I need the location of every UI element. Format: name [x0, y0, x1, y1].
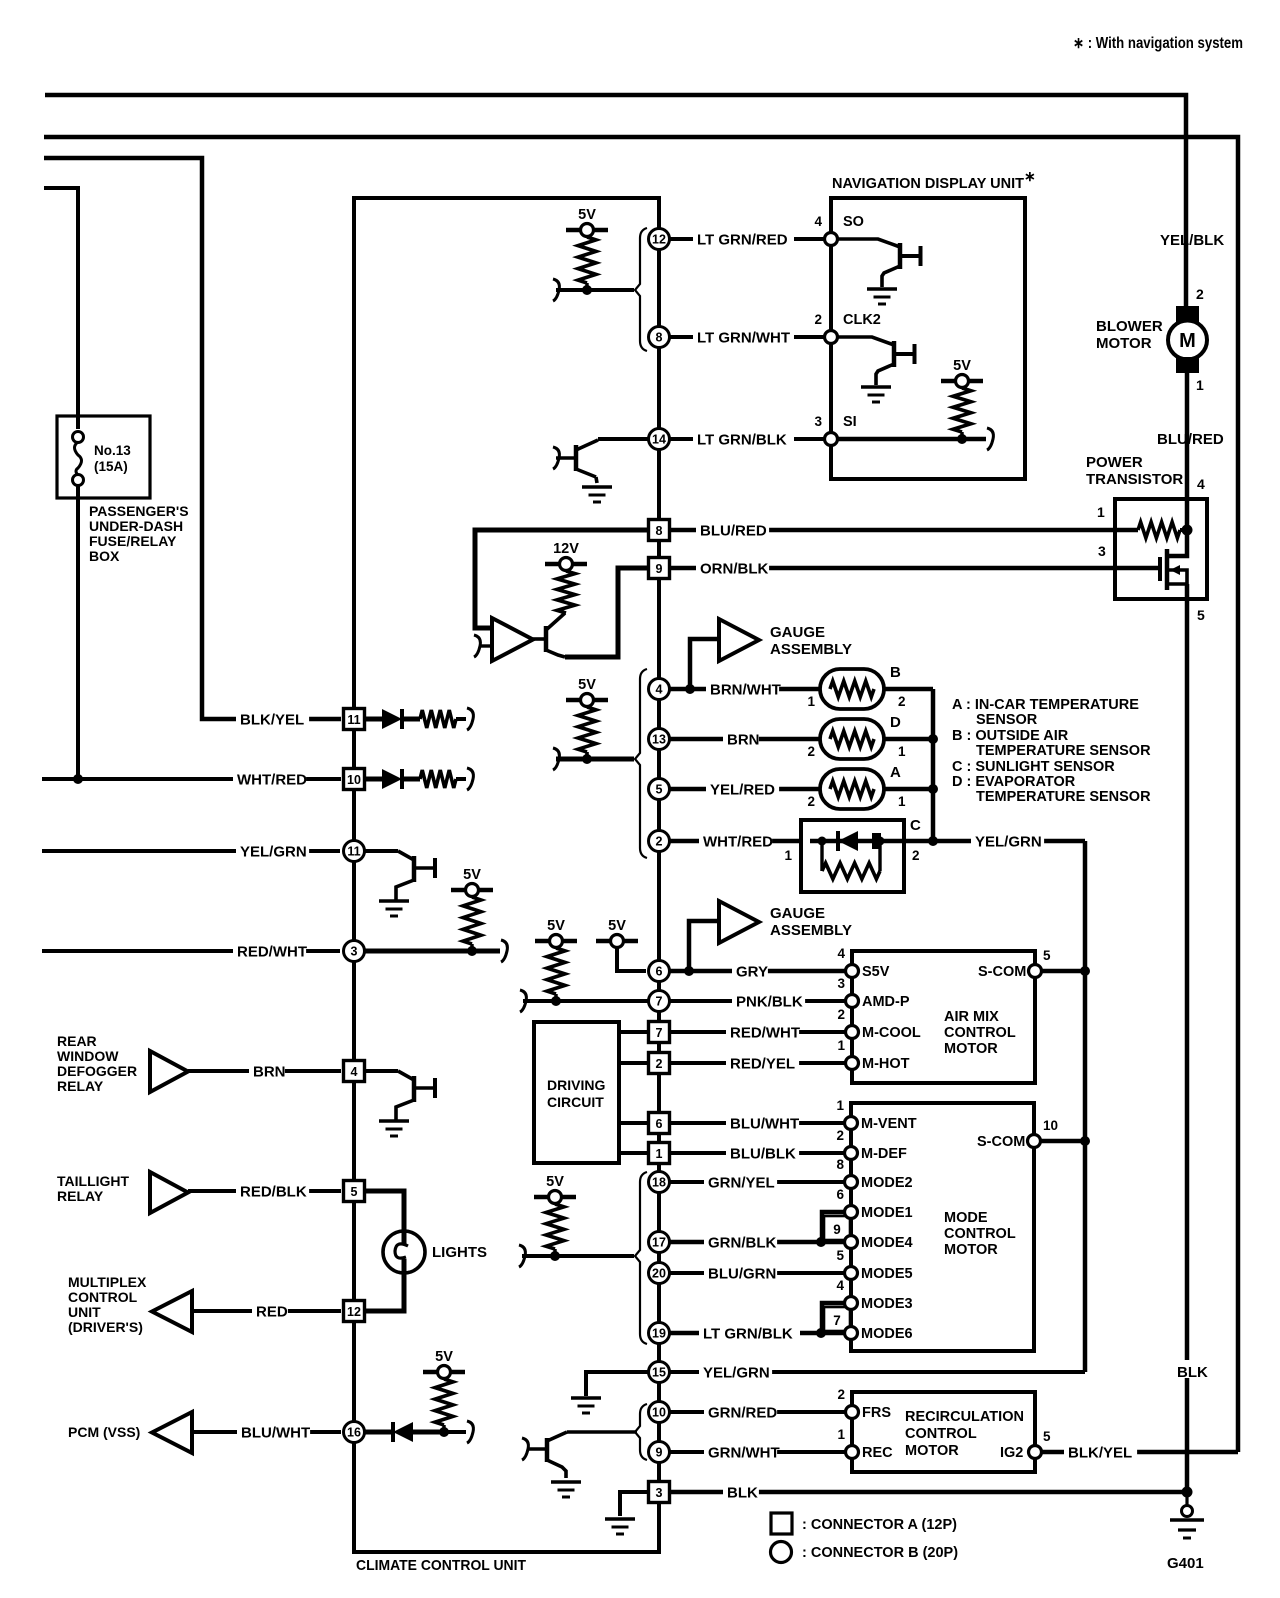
svg-text:C: C	[910, 817, 921, 834]
connector A pin 9 square small	[824, 1216, 850, 1240]
power transistor box	[1115, 499, 1207, 599]
svg-text:7: 7	[656, 995, 663, 1009]
svg-text:S-COM: S-COM	[978, 964, 1026, 980]
svg-text:10: 10	[1043, 1118, 1058, 1133]
wire RED/WHT to M-COOL	[670, 1030, 845, 1034]
svg-text:6: 6	[656, 1117, 663, 1131]
svg-text:SENSOR: SENSOR	[976, 712, 1038, 728]
connector B pin 6 right column	[649, 961, 670, 982]
wire RED	[192, 1309, 341, 1313]
svg-text:D: D	[890, 714, 901, 731]
sensor C sunlight sensor box	[801, 820, 904, 892]
relay REAR WINDOW DEFOGGER RELAY	[150, 1051, 188, 1092]
wire LT GRN/WHT to nav CLK2	[670, 335, 824, 339]
svg-text:5V: 5V	[608, 918, 626, 934]
svg-text:B: B	[890, 664, 901, 681]
svg-text:5: 5	[1197, 607, 1205, 623]
sensor C photodiode	[810, 839, 900, 844]
mode pin MODE5	[845, 1267, 858, 1280]
sensor A in-car temperature	[820, 769, 884, 809]
svg-text:DEFOGGER: DEFOGGER	[57, 1063, 137, 1079]
svg-text:LT GRN/RED: LT GRN/RED	[697, 231, 788, 248]
svg-text:4: 4	[836, 1278, 844, 1293]
svg-text:LT GRN/BLK: LT GRN/BLK	[697, 431, 787, 448]
svg-text:PCM (VSS): PCM (VSS)	[68, 1424, 140, 1440]
connector B pin 4 right column	[649, 679, 670, 700]
connector B pin 15 right column	[649, 1362, 670, 1383]
svg-text:CLK2: CLK2	[843, 312, 881, 328]
svg-text:(15A): (15A)	[94, 459, 128, 474]
svg-text:4: 4	[837, 946, 845, 961]
wire RED/BLK	[188, 1189, 341, 1193]
sensor bus vertical	[931, 689, 936, 841]
svg-text:14: 14	[652, 433, 666, 447]
wire driver emitter to pin 9	[565, 568, 648, 657]
svg-text:7: 7	[656, 1026, 663, 1040]
connector A pin 5 square	[344, 1181, 365, 1202]
svg-text:REC: REC	[862, 1445, 893, 1461]
power transistor resistor	[1138, 522, 1180, 538]
connector B pin 18 right column	[649, 1172, 670, 1193]
svg-text:BRN: BRN	[727, 731, 760, 748]
svg-text:REAR: REAR	[57, 1033, 97, 1049]
wire top bus 1 to blower motor	[45, 95, 1186, 306]
transistor at pin 11 YEL/GRN with ground	[365, 849, 398, 853]
wire LT GRN/BLK to nav SI	[670, 437, 824, 441]
svg-text:13: 13	[652, 733, 666, 747]
mode pin MODE2	[845, 1176, 858, 1189]
svg-text:9: 9	[656, 1446, 663, 1460]
svg-text:5V: 5V	[578, 207, 596, 223]
connector A pin 1 right column	[649, 1143, 670, 1164]
wire YEL/GRN vertical rail	[1083, 841, 1088, 1372]
svg-text:(DRIVER'S): (DRIVER'S)	[68, 1319, 143, 1335]
connector A pin 3 right column	[649, 1482, 670, 1503]
svg-text:LIGHTS: LIGHTS	[432, 1244, 487, 1261]
svg-text:5V: 5V	[463, 867, 481, 883]
buffer amp triangle	[492, 618, 533, 661]
svg-text:G401: G401	[1167, 1555, 1204, 1572]
svg-text:MOTOR: MOTOR	[944, 1041, 998, 1057]
connector B pin 9 right column	[649, 1442, 670, 1463]
connector B pin 20 right column	[649, 1263, 670, 1284]
wire WHT/RED feed	[42, 777, 341, 781]
svg-text:2: 2	[807, 794, 815, 809]
svg-text:WINDOW: WINDOW	[57, 1048, 119, 1064]
svg-text:CONTROL: CONTROL	[944, 1025, 1016, 1041]
svg-text:19: 19	[652, 1327, 666, 1341]
wire drain	[1167, 499, 1187, 556]
connector B pin 3 circle	[344, 941, 365, 962]
transistor at pin 14 with ground	[553, 447, 559, 469]
svg-text:4: 4	[656, 683, 663, 697]
connector B pin 10 right column	[649, 1402, 670, 1423]
svg-text:RECIRCULATION: RECIRCULATION	[905, 1409, 1024, 1425]
wire LT GRN/BLK to MODE6 and MODE3	[670, 1331, 845, 1336]
connector B pin 16 circle	[344, 1422, 365, 1443]
svg-text:ASSEMBLY: ASSEMBLY	[770, 641, 852, 658]
svg-text:6: 6	[656, 965, 663, 979]
svg-text:5: 5	[1043, 1429, 1051, 1444]
connector A pin 6 right column	[649, 1113, 670, 1134]
svg-text:: CONNECTOR B (20P): : CONNECTOR B (20P)	[802, 1545, 958, 1561]
svg-text:2: 2	[837, 1387, 845, 1402]
svg-text:GRY: GRY	[736, 963, 768, 980]
svg-text:2: 2	[837, 1007, 845, 1022]
svg-text:S-COM: S-COM	[977, 1134, 1025, 1150]
svg-text:2: 2	[1196, 286, 1204, 302]
wire pin 12 stub	[365, 1309, 404, 1314]
svg-text:WHT/RED: WHT/RED	[237, 771, 307, 788]
wire driving circuit to pin 2 square	[619, 1061, 648, 1065]
svg-text:1: 1	[898, 794, 906, 809]
svg-text:GRN/WHT: GRN/WHT	[708, 1444, 780, 1461]
wire ORN/BLK to power transistor gate	[670, 566, 1159, 571]
connector A pin 9 right column	[649, 558, 670, 579]
svg-text:M: M	[1179, 330, 1196, 352]
brace recirculation connector group	[635, 1404, 647, 1460]
svg-text:DRIVING: DRIVING	[547, 1077, 605, 1093]
svg-text:GRN/RED: GRN/RED	[708, 1404, 777, 1421]
arrow PCM (VSS)	[152, 1412, 192, 1453]
jumper to MODE3 via square 7	[822, 1303, 845, 1333]
wire driving circuit to pin 1 square	[619, 1151, 648, 1155]
svg-text:GAUGE: GAUGE	[770, 905, 825, 922]
svg-text:5V: 5V	[546, 1174, 564, 1190]
svg-text:TEMPERATURE SENSOR: TEMPERATURE SENSOR	[976, 789, 1151, 805]
wire YEL/GRN feed	[42, 849, 340, 853]
wire lights to pin 12	[365, 1272, 404, 1311]
svg-text:BLK/YEL: BLK/YEL	[240, 711, 304, 728]
air mix pin S5V	[846, 965, 859, 978]
wire PNK/BLK inside stub	[523, 999, 648, 1003]
svg-text:A: A	[890, 764, 901, 781]
svg-text:8: 8	[836, 1157, 844, 1172]
svg-text:LT GRN/BLK: LT GRN/BLK	[703, 1325, 793, 1342]
svg-text:BRN: BRN	[253, 1063, 286, 1080]
svg-text:CIRCUIT: CIRCUIT	[547, 1094, 604, 1110]
wire BLU/RED to power transistor	[670, 528, 1138, 533]
jumper to MODE1 via square 9	[822, 1212, 845, 1242]
nav pin 4 SO	[825, 233, 838, 246]
gauge assembly 2 arrow	[689, 921, 719, 971]
svg-text:RED/WHT: RED/WHT	[730, 1024, 800, 1041]
air mix pin AMD-P	[846, 995, 859, 1008]
svg-text:: CONNECTOR A (12P): : CONNECTOR A (12P)	[802, 1517, 957, 1533]
svg-text:9: 9	[656, 562, 663, 576]
svg-text:BLK/YEL: BLK/YEL	[1068, 1444, 1132, 1461]
label WHT/RED	[233, 770, 306, 785]
svg-text:5V: 5V	[435, 1349, 453, 1365]
svg-text:SI: SI	[843, 414, 857, 430]
svg-text:MODE5: MODE5	[861, 1266, 913, 1282]
power transistor MOSFET	[1158, 557, 1162, 581]
svg-text:MODE3: MODE3	[861, 1296, 913, 1312]
svg-text:11: 11	[347, 845, 360, 859]
svg-text:CONTROL: CONTROL	[905, 1426, 977, 1442]
navigation display unit box	[831, 198, 1025, 479]
nav pin 2 CLK2	[825, 331, 838, 344]
label BLK/YEL	[236, 710, 309, 725]
svg-text:C : SUNLIGHT SENSOR: C : SUNLIGHT SENSOR	[952, 759, 1115, 775]
air mix control motor box	[852, 951, 1035, 1083]
mode pin MODE3	[845, 1297, 858, 1310]
svg-text:1: 1	[898, 744, 906, 759]
svg-text:CLIMATE CONTROL UNIT: CLIMATE CONTROL UNIT	[356, 1557, 526, 1574]
svg-text:BLOWER: BLOWER	[1096, 318, 1163, 335]
svg-text:2: 2	[836, 1128, 844, 1143]
svg-text:GAUGE: GAUGE	[770, 624, 825, 641]
svg-text:1: 1	[656, 1147, 663, 1161]
svg-text:IG2: IG2	[1000, 1445, 1023, 1461]
wire YEL/GRN from pin 15	[670, 1370, 1085, 1374]
wire lights loop from pin 5	[365, 1191, 404, 1232]
fuse No.13 (15A)	[73, 432, 84, 443]
relay TAILLIGHT RELAY	[150, 1172, 188, 1213]
svg-text:BOX: BOX	[89, 548, 120, 564]
svg-text:ORN/BLK: ORN/BLK	[700, 560, 768, 577]
svg-text:RED/BLK: RED/BLK	[240, 1183, 307, 1200]
air mix S-COM pin 5	[1029, 965, 1042, 978]
svg-text:5V: 5V	[547, 918, 565, 934]
connector A pin 12 square	[344, 1301, 365, 1322]
svg-text:MULTIPLEX: MULTIPLEX	[68, 1274, 147, 1290]
connector B pin 8 right column	[649, 327, 670, 348]
svg-text:4: 4	[351, 1065, 358, 1079]
connector B pin 11 circle	[344, 841, 365, 862]
connector B pin 2 right column	[649, 831, 670, 852]
svg-text:5: 5	[656, 783, 663, 797]
svg-text:∗: ∗	[1024, 168, 1036, 184]
driving circuit box	[534, 1022, 619, 1163]
svg-text:YEL/GRN: YEL/GRN	[240, 843, 307, 860]
wire BRN	[188, 1069, 341, 1073]
svg-text:3: 3	[351, 945, 358, 959]
svg-text:MOTOR: MOTOR	[905, 1443, 959, 1459]
diode and resistor at pin 11	[365, 717, 382, 722]
nav transistor SO	[838, 239, 900, 247]
wire BLU/GRN to MODE5	[670, 1271, 845, 1275]
svg-text:PNK/BLK: PNK/BLK	[736, 993, 803, 1010]
diode at pin 16 BLU/WHT	[365, 1430, 393, 1435]
connector B pin 7 right column	[649, 991, 670, 1012]
sensor B outside air temperature	[820, 669, 884, 709]
svg-text:M-COOL: M-COOL	[862, 1025, 921, 1041]
wire BLU/BLK to M-DEF	[670, 1151, 845, 1155]
svg-text:GRN/YEL: GRN/YEL	[708, 1174, 775, 1191]
gauge assembly 1 arrow	[690, 639, 719, 689]
svg-text:D : EVAPORATOR: D : EVAPORATOR	[952, 774, 1076, 790]
mode pin M-VENT	[845, 1117, 858, 1130]
svg-text:TRANSISTOR: TRANSISTOR	[1086, 471, 1183, 488]
wire BLU/WHT	[192, 1430, 341, 1434]
svg-text:FRS: FRS	[862, 1405, 891, 1421]
svg-text:2: 2	[814, 312, 822, 327]
svg-text:GRN/BLK: GRN/BLK	[708, 1234, 776, 1251]
recirc pin FRS	[846, 1406, 859, 1419]
svg-text:RED/WHT: RED/WHT	[237, 943, 307, 960]
svg-text:POWER: POWER	[1086, 454, 1143, 471]
svg-text:RELAY: RELAY	[57, 1188, 104, 1204]
nav wire SI	[838, 437, 986, 442]
mode pin M-DEF	[845, 1147, 858, 1160]
svg-text:5: 5	[836, 1248, 844, 1263]
connector A pin 8 right column	[649, 520, 670, 541]
brace mode connector group	[635, 1172, 647, 1344]
connector B pin 19 right column	[649, 1323, 670, 1344]
svg-text:M-HOT: M-HOT	[862, 1056, 910, 1072]
svg-text:12V: 12V	[553, 541, 579, 557]
svg-text:8: 8	[656, 331, 663, 345]
svg-text:1: 1	[837, 1427, 845, 1442]
svg-text:1: 1	[1097, 504, 1105, 520]
svg-text:M-DEF: M-DEF	[861, 1146, 907, 1162]
recirc pin REC	[846, 1446, 859, 1459]
connector A pin 7 square small	[824, 1307, 850, 1331]
mode control motor box	[851, 1103, 1034, 1351]
connector A pin 11 square	[344, 709, 365, 730]
wire BRN to sensor D	[670, 737, 820, 742]
wire GRN/WHT to REC	[670, 1450, 845, 1454]
label CLIMATE CONTROL UNIT	[356, 1556, 586, 1574]
connector A pin 7 right column	[649, 1022, 670, 1043]
svg-text:UNDER-DASH: UNDER-DASH	[89, 518, 183, 534]
svg-text:MODE1: MODE1	[861, 1205, 913, 1221]
svg-text:9: 9	[833, 1222, 841, 1237]
svg-text:3: 3	[814, 414, 822, 429]
svg-text:NAVIGATION DISPLAY UNIT: NAVIGATION DISPLAY UNIT	[832, 176, 1024, 192]
svg-text:CONTROL: CONTROL	[944, 1226, 1016, 1242]
svg-text:∗ : With navigation system: ∗ : With navigation system	[1073, 35, 1243, 52]
wire RED/WHT inside stub	[365, 949, 500, 954]
svg-text:BLU/WHT: BLU/WHT	[730, 1115, 799, 1132]
climate control unit box	[354, 198, 659, 1552]
ground at pin 3 BLK	[620, 1492, 648, 1516]
svg-text:B : OUTSIDE AIR: B : OUTSIDE AIR	[952, 728, 1069, 744]
wire GRN/RED to FRS	[670, 1410, 845, 1414]
svg-text:ASSEMBLY: ASSEMBLY	[770, 922, 852, 939]
svg-text:MODE2: MODE2	[861, 1175, 913, 1191]
connector B pin 14 right column	[649, 429, 670, 450]
mode pin MODE4	[845, 1236, 858, 1249]
svg-text:7: 7	[833, 1313, 841, 1328]
svg-text:M-VENT: M-VENT	[861, 1116, 917, 1132]
svg-text:TEMPERATURE SENSOR: TEMPERATURE SENSOR	[976, 743, 1151, 759]
brace nav connector group	[635, 228, 647, 351]
svg-text:10: 10	[652, 1406, 666, 1420]
svg-text:MODE6: MODE6	[861, 1326, 913, 1342]
svg-text:3: 3	[1098, 543, 1106, 559]
svg-text:BLU/RED: BLU/RED	[1157, 431, 1224, 448]
svg-text:5V: 5V	[578, 677, 596, 693]
wire YEL/RED to sensor A	[670, 787, 820, 792]
svg-text:No.13: No.13	[94, 443, 131, 458]
wire driving circuit to pin 7 square	[619, 1030, 648, 1034]
legend connector B circle	[771, 1542, 792, 1563]
connector B pin 5 right column	[649, 779, 670, 800]
nav pin 3 SI	[825, 433, 838, 446]
connector B pin 13 right column	[649, 729, 670, 750]
ground at pin 15 YEL/GRN	[586, 1372, 648, 1396]
svg-text:TAILLIGHT: TAILLIGHT	[57, 1173, 130, 1189]
wire driving circuit to pin 6 square	[619, 1121, 648, 1125]
svg-text:5: 5	[351, 1185, 358, 1199]
recirc IG2 pin 5	[1029, 1446, 1042, 1459]
svg-text:BLU/BLK: BLU/BLK	[730, 1145, 796, 1162]
connector B pin 17 right column	[649, 1232, 670, 1253]
svg-text:A : IN-CAR TEMPERATURE: A : IN-CAR TEMPERATURE	[952, 697, 1139, 713]
svg-text:1: 1	[836, 1098, 844, 1113]
fuse box PASSENGER'S UNDER-DASH FUSE/RELAY BOX	[57, 416, 150, 498]
svg-text:4: 4	[814, 214, 822, 229]
connector B pin 12 right column	[649, 229, 670, 250]
transistor at recirculation group with ground	[567, 1430, 637, 1434]
wire RED/YEL to M-HOT	[670, 1061, 845, 1065]
mode S-COM pin 10	[1028, 1135, 1041, 1148]
svg-text:SO: SO	[843, 214, 864, 230]
svg-text:2: 2	[912, 848, 920, 863]
brace sensor connector group	[635, 669, 647, 858]
diode and resistor at pin 10	[365, 777, 382, 782]
nav transistor CLK2	[838, 337, 894, 345]
svg-text:BLU/GRN: BLU/GRN	[708, 1265, 776, 1282]
ground G401	[1182, 1487, 1193, 1498]
air mix pin M-HOT	[846, 1057, 859, 1070]
label BLK right	[1175, 1360, 1227, 1378]
svg-text:20: 20	[652, 1267, 666, 1281]
svg-text:BLK: BLK	[727, 1484, 758, 1501]
svg-text:12: 12	[347, 1305, 361, 1319]
sensor C resistor loop	[820, 841, 823, 871]
svg-text:2: 2	[807, 744, 815, 759]
svg-text:1: 1	[807, 694, 815, 709]
svg-text:12: 12	[652, 233, 666, 247]
wire GRY to S5V	[670, 969, 845, 974]
wire WHT/RED to sensor C	[670, 839, 800, 844]
wire sensor C to YEL/GRN	[900, 839, 1085, 844]
svg-text:AIR MIX: AIR MIX	[944, 1009, 999, 1025]
svg-text:8: 8	[656, 524, 663, 538]
mode pin MODE1	[845, 1206, 858, 1219]
svg-text:3: 3	[656, 1486, 663, 1500]
label RED/WHT	[233, 942, 306, 957]
wire PNK/BLK to AMD-P	[670, 999, 845, 1003]
wire LT GRN/RED to nav SO	[670, 237, 824, 241]
svg-text:10: 10	[347, 773, 361, 787]
svg-text:RELAY: RELAY	[57, 1078, 104, 1094]
svg-text:1: 1	[1196, 377, 1204, 393]
wire sensor B to bus	[884, 687, 933, 692]
wire blower to power transistor	[1185, 373, 1190, 499]
svg-text:1: 1	[837, 1038, 845, 1053]
svg-text:YEL/GRN: YEL/GRN	[703, 1364, 770, 1381]
connector A pin 2 right column	[649, 1053, 670, 1074]
svg-text:RED: RED	[256, 1303, 288, 1320]
wire pin 14 to transistor	[598, 437, 648, 441]
svg-text:CONTROL: CONTROL	[68, 1289, 138, 1305]
svg-text:MOTOR: MOTOR	[944, 1242, 998, 1258]
svg-text:YEL/RED: YEL/RED	[710, 781, 775, 798]
svg-text:2: 2	[898, 694, 906, 709]
buffer amp input hook	[474, 635, 480, 657]
svg-text:11: 11	[347, 713, 360, 727]
label YEL/GRN	[236, 842, 309, 857]
svg-text:2: 2	[656, 835, 663, 849]
wire GRN/BLK to MODE4 and MODE1	[670, 1240, 845, 1245]
wire source to ground rail	[1185, 584, 1190, 1492]
svg-text:FUSE/RELAY: FUSE/RELAY	[89, 533, 177, 549]
wire BRN/WHT to sensor B	[670, 687, 820, 692]
